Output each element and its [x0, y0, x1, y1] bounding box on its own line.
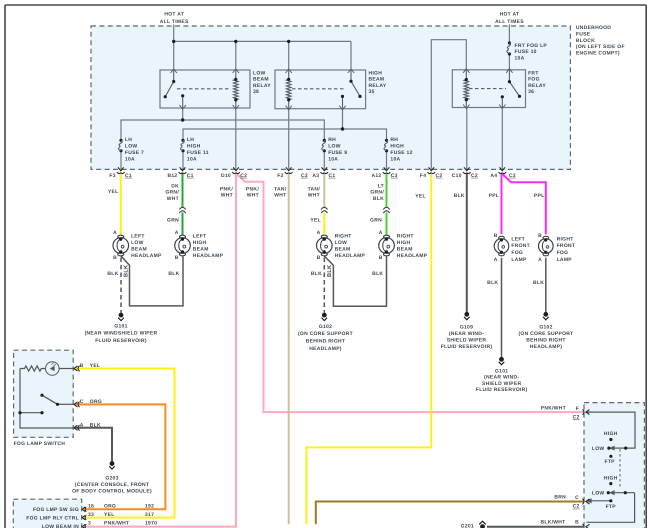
svg-text:PPL: PPL — [489, 193, 500, 199]
ground G201 — [479, 521, 486, 528]
wire DK GRN/WHT B12 — [182, 174, 184, 208]
fog switch contact link — [20, 412, 42, 414]
wire YEL to right low headlamp — [323, 213, 325, 236]
pin B dimmer switch — [583, 524, 590, 528]
svg-text:G102: G102 — [539, 324, 552, 330]
wire GRN to right high headlamp — [386, 213, 388, 236]
lamp right low beam headlamp — [317, 235, 333, 256]
svg-text:BLK: BLK — [454, 193, 465, 199]
svg-text:LEFT: LEFT — [511, 236, 525, 242]
underhood fuse block box — [91, 26, 570, 169]
svg-text:BEAM: BEAM — [397, 247, 413, 253]
svg-text:YEL: YEL — [104, 512, 115, 518]
svg-text:HIGH: HIGH — [193, 240, 207, 246]
svg-text:HEADLAMP: HEADLAMP — [131, 253, 162, 259]
svg-text:A: A — [80, 423, 84, 429]
wire PNK/WHT branch to dimmer pin F — [236, 174, 584, 412]
svg-text:HIGH: HIGH — [187, 144, 201, 150]
relay K2 coil — [288, 70, 290, 79]
svg-text:BEAM: BEAM — [253, 77, 269, 83]
fuse F12 end dots — [385, 139, 388, 142]
svg-text:G101: G101 — [495, 368, 508, 374]
wire LT GRN/BLK A12 — [386, 174, 388, 208]
svg-text:PNK/WHT: PNK/WHT — [541, 405, 566, 411]
svg-text:HIGH: HIGH — [369, 70, 383, 76]
fog switch left rail — [20, 369, 73, 429]
svg-text:ENGINE COMPT): ENGINE COMPT) — [576, 51, 620, 57]
svg-text:BLK: BLK — [487, 280, 498, 286]
wire BLK/WHT G201 to dimmer pin B — [487, 526, 583, 528]
svg-text:LOW: LOW — [253, 70, 266, 76]
relay K1 coil — [235, 70, 237, 79]
svg-text:B: B — [379, 255, 383, 261]
svg-text:B: B — [575, 519, 579, 525]
inline connector left high — [179, 207, 389, 213]
svg-text:LAMP: LAMP — [557, 257, 573, 263]
wire TAN/WHT A3 — [323, 174, 325, 208]
svg-text:WHT: WHT — [274, 193, 286, 199]
wire BLK C10 to G109 — [466, 174, 468, 313]
relay K3 switch — [508, 70, 510, 82]
svg-text:B: B — [538, 233, 542, 239]
svg-text:FOG LMP SW SIG: FOG LMP SW SIG — [33, 507, 79, 513]
fuse F7 LH LOW symbol — [118, 140, 122, 151]
inline connector right high — [383, 207, 389, 209]
svg-text:G109: G109 — [460, 324, 473, 330]
svg-text:BEAM: BEAM — [131, 247, 147, 253]
svg-text:LAMP: LAMP — [511, 257, 527, 263]
svg-text:C2: C2 — [301, 173, 308, 179]
svg-text:A: A — [379, 230, 383, 236]
svg-text:G102: G102 — [319, 324, 332, 330]
svg-text:(ON CORE SUPPORT: (ON CORE SUPPORT — [518, 331, 573, 337]
wire YEL F4 to BCM area — [306, 174, 431, 525]
lamp symbols — [113, 235, 553, 256]
lamp left low beam headlamp — [113, 235, 129, 256]
svg-text:A: A — [538, 257, 542, 263]
wire drop to low relay switch — [173, 41, 175, 70]
svg-text:B: B — [113, 255, 117, 261]
svg-text:A: A — [175, 230, 179, 236]
svg-text:GRN/: GRN/ — [165, 190, 179, 196]
svg-text:GRN: GRN — [167, 218, 179, 224]
svg-text:HEADLAMP): HEADLAMP) — [309, 346, 342, 352]
svg-text:OF BODY CONTROL MODULE): OF BODY CONTROL MODULE) — [72, 489, 152, 495]
svg-text:35: 35 — [369, 89, 375, 95]
svg-text:C1: C1 — [187, 173, 194, 179]
svg-text:10A: 10A — [125, 156, 135, 162]
svg-text:RELAY: RELAY — [369, 83, 387, 89]
fuse F9 end dots — [323, 139, 326, 142]
svg-text:WHT: WHT — [308, 193, 320, 199]
svg-text:YEL: YEL — [310, 218, 321, 224]
dimmer switch contact dots group 2 — [609, 482, 612, 485]
wire fuse11 to pin B12 — [182, 151, 184, 170]
svg-text:FOG LMP RLY CTRL: FOG LMP RLY CTRL — [26, 515, 79, 521]
svg-text:WHT: WHT — [167, 196, 179, 202]
pin D10 C2 connector — [232, 167, 240, 173]
svg-text:BEAM: BEAM — [369, 77, 385, 83]
wire top bus — [174, 40, 351, 42]
svg-text:A3: A3 — [312, 173, 319, 179]
svg-text:(NEAR WIND-: (NEAR WIND- — [449, 331, 484, 337]
svg-text:(ON CORE SUPPORT: (ON CORE SUPPORT — [298, 331, 353, 337]
fog switch pin arrows — [74, 366, 80, 431]
pin A3 C1 connector — [321, 167, 329, 173]
svg-text:C: C — [80, 399, 84, 405]
lamp right high beam headlamp — [379, 235, 395, 256]
svg-text:LH: LH — [125, 137, 132, 143]
pin F4 C2 connector — [428, 167, 436, 173]
svg-text:C2: C2 — [240, 173, 247, 179]
svg-text:BLK/WHT: BLK/WHT — [540, 519, 565, 525]
wire TAN/WHT F2 — [288, 174, 290, 525]
svg-text:YEL: YEL — [108, 189, 119, 195]
fuse F10 FRT FOG LP symbol — [507, 43, 511, 54]
svg-text:FOG: FOG — [511, 250, 523, 256]
relay K3 link dashed — [469, 88, 506, 90]
svg-text:HIGH: HIGH — [390, 144, 404, 150]
svg-text:FOG: FOG — [528, 77, 540, 83]
dimmer pin connectors — [583, 409, 590, 528]
svg-text:(ON LEFT SIDE OF: (ON LEFT SIDE OF — [576, 44, 625, 50]
LED indicator circle — [46, 362, 60, 376]
svg-text:(NEAR WINDSHIELD WIPER: (NEAR WINDSHIELD WIPER — [85, 331, 158, 337]
svg-text:LOW BEAM IN: LOW BEAM IN — [42, 524, 79, 528]
svg-text:LOW: LOW — [125, 144, 138, 150]
relay K2 coil dots — [287, 78, 290, 81]
wire fog relay coil feed from F4 — [431, 40, 466, 170]
svg-text:BLK: BLK — [373, 196, 384, 202]
pin F3 C1 connector — [117, 167, 125, 173]
ground G102 headlamps — [322, 313, 328, 320]
svg-text:HIGH: HIGH — [604, 475, 618, 481]
svg-text:TAN/: TAN/ — [308, 186, 321, 192]
relay K1 link dashed — [177, 88, 231, 90]
svg-text:10A: 10A — [390, 156, 400, 162]
junction dots top bus — [119, 40, 521, 153]
pin B fog switch — [74, 366, 80, 372]
ground symbols — [109, 312, 548, 528]
svg-text:FUSE 12: FUSE 12 — [390, 150, 412, 156]
svg-text:ORG: ORG — [104, 504, 116, 510]
svg-text:D10: D10 — [221, 173, 231, 179]
pin A4 C3 connector — [499, 167, 507, 173]
svg-text:B12: B12 — [167, 173, 177, 179]
svg-text:FRT FOG LP: FRT FOG LP — [515, 43, 548, 49]
svg-text:BLK: BLK — [107, 271, 118, 277]
svg-text:FTP: FTP — [605, 459, 616, 465]
svg-text:10A: 10A — [515, 56, 525, 62]
svg-text:FUSE: FUSE — [576, 31, 591, 37]
wire PPL A4 to left fog lamp — [501, 174, 503, 235]
svg-text:YEL: YEL — [415, 194, 426, 200]
svg-text:TAN/: TAN/ — [274, 186, 287, 192]
svg-text:BLK: BLK — [372, 271, 383, 277]
svg-text:BLK: BLK — [327, 265, 333, 277]
svg-text:FLUID RESERVOIR): FLUID RESERVOIR) — [476, 387, 528, 393]
svg-text:RELAY: RELAY — [528, 83, 546, 89]
svg-text:SHIELD WIPER: SHIELD WIPER — [447, 338, 487, 344]
svg-text:HIGH: HIGH — [604, 431, 618, 437]
svg-text:HEADLAMP): HEADLAMP) — [530, 344, 563, 350]
svg-text:(NEAR WIND-: (NEAR WIND- — [484, 375, 519, 381]
svg-text:1970: 1970 — [145, 520, 157, 526]
lamp left high beam headlamp — [175, 235, 191, 256]
dimmer switch internals — [587, 412, 636, 522]
pin A fog switch — [74, 425, 80, 431]
relay K1 switch — [173, 70, 175, 82]
relay K3 contact dots — [508, 80, 511, 83]
svg-text:HEADLAMP: HEADLAMP — [397, 253, 428, 259]
svg-text:16: 16 — [88, 504, 94, 510]
svg-text:FUSE 7: FUSE 7 — [125, 150, 144, 156]
svg-text:GRN: GRN — [370, 218, 382, 224]
svg-text:BLK: BLK — [168, 271, 179, 277]
wire YEL F3 to left low headlamp — [120, 174, 122, 236]
wire YEL fog switch B to BCM pin33 — [75, 369, 175, 518]
lamp right front fog lamp — [539, 236, 554, 256]
svg-text:LOW: LOW — [328, 144, 341, 150]
svg-text:RIGHT: RIGHT — [397, 234, 414, 240]
relay K3 coil dots — [465, 78, 468, 81]
svg-text:B: B — [494, 233, 498, 239]
relay box entry chevrons — [171, 69, 513, 110]
svg-text:PNK/WHT: PNK/WHT — [104, 520, 129, 526]
pin F2 C2 connector — [285, 167, 293, 173]
svg-text:FLUID RESERVOIR): FLUID RESERVOIR) — [441, 344, 493, 350]
wire fuse9 to pin A3 — [323, 151, 325, 170]
BCM pin connectors — [82, 507, 86, 528]
colored wires — [75, 174, 584, 527]
relay K1 low beam relay box — [160, 70, 250, 108]
wire bus B high fuses — [183, 129, 387, 140]
wire fog relay switch out to A4 — [501, 108, 503, 170]
wire high relay coil out to F2 — [288, 109, 290, 170]
svg-text:HIGH: HIGH — [397, 240, 411, 246]
svg-text:BLK: BLK — [311, 271, 322, 277]
svg-text:BEAM: BEAM — [193, 247, 209, 253]
relay K2 high beam relay box — [275, 70, 366, 109]
svg-text:C2: C2 — [471, 173, 478, 179]
svg-text:BLOCK: BLOCK — [576, 38, 595, 44]
svg-text:PNK/: PNK/ — [246, 186, 259, 192]
svg-text:FLUID RESERVOIR): FLUID RESERVOIR) — [95, 338, 147, 344]
svg-text:FUSE 11: FUSE 11 — [187, 150, 209, 156]
svg-text:DK: DK — [171, 183, 179, 189]
svg-text:BLK: BLK — [90, 423, 101, 429]
wire drop to high relay switch — [350, 41, 352, 70]
fuse F10 end dots — [508, 41, 511, 44]
wire drop to low relay coil — [235, 41, 237, 70]
svg-text:FOG LAMP SWITCH: FOG LAMP SWITCH — [14, 441, 66, 447]
svg-text:BRN: BRN — [554, 495, 566, 501]
wire BLK right pair return — [324, 256, 386, 306]
fog switch arm — [42, 395, 58, 404]
pin F dimmer switch — [583, 409, 590, 415]
svg-text:LEFT: LEFT — [193, 234, 207, 240]
ground G203 — [109, 462, 115, 469]
wire low relay switch out to fuse bus A — [182, 108, 184, 120]
fuse block pin connectors — [117, 167, 506, 173]
svg-text:C3: C3 — [391, 173, 398, 179]
relay K2 switch — [350, 70, 352, 81]
wire BLK left dashed to G101 — [120, 258, 122, 313]
svg-text:B: B — [80, 363, 84, 369]
wire BLK right dashed to G102 — [323, 258, 325, 313]
svg-text:HOT AT: HOT AT — [164, 11, 184, 17]
svg-text:F4: F4 — [420, 173, 426, 179]
resistor fog switch — [20, 366, 45, 371]
headlamp ground return wires — [121, 256, 546, 357]
relay K2 contact dots — [349, 80, 352, 83]
svg-text:RH: RH — [390, 137, 398, 143]
svg-text:GRN/: GRN/ — [370, 190, 384, 196]
TEXTS — [125, 11, 625, 156]
svg-text:BEHIND RIGHT: BEHIND RIGHT — [526, 338, 565, 344]
svg-text:F: F — [576, 406, 579, 412]
svg-text:YEL: YEL — [90, 363, 101, 369]
wire hot feed right — [508, 25, 510, 44]
fuse F11 LH HIGH symbol — [180, 140, 184, 151]
wire BRN dimmer pin C — [316, 502, 584, 525]
svg-text:10A: 10A — [187, 156, 197, 162]
node bus A junction — [181, 118, 184, 121]
svg-text:HEADLAMP: HEADLAMP — [193, 253, 224, 259]
wire PNK/WHT D10 to BCM pin3 — [85, 174, 236, 527]
pin C dimmer switch — [583, 499, 590, 505]
ground G109 — [464, 312, 470, 319]
svg-text:192: 192 — [145, 504, 154, 510]
svg-text:LOW: LOW — [592, 490, 605, 496]
svg-text:BLK: BLK — [124, 265, 130, 277]
svg-text:LT: LT — [378, 183, 384, 189]
svg-text:FRONT: FRONT — [511, 243, 530, 249]
pin A12 C3 connector — [383, 167, 391, 173]
wire fuse7 to pin F3 — [120, 151, 122, 170]
svg-text:ALL TIMES: ALL TIMES — [160, 19, 189, 25]
svg-text:F2: F2 — [277, 173, 283, 179]
ground G101 headlamps — [118, 313, 124, 320]
svg-text:B: B — [317, 255, 321, 261]
fog switch contact dots — [40, 394, 43, 397]
pin C10 C2 connector — [463, 167, 471, 173]
svg-text:HEADLAMP: HEADLAMP — [335, 253, 366, 259]
svg-text:A: A — [317, 230, 321, 236]
svg-text:B: B — [175, 255, 179, 261]
fuse F7 end dots — [119, 139, 122, 142]
svg-text:C2: C2 — [573, 414, 580, 420]
svg-text:G101: G101 — [114, 323, 127, 329]
svg-text:317: 317 — [145, 512, 154, 518]
svg-text:SHIELD WIPER: SHIELD WIPER — [482, 381, 522, 387]
wire PPL branch to right fog lamp — [503, 174, 546, 234]
relay K1 coil dots — [234, 78, 237, 81]
wire BLK left pair return — [121, 256, 183, 306]
wire drop to high relay coil — [288, 41, 290, 70]
fog lamp switch box — [14, 350, 74, 437]
inline connector right low — [321, 207, 327, 209]
pin 16 BCM — [82, 507, 86, 512]
svg-text:C: C — [575, 495, 579, 501]
wire BLK right fog to G102 — [545, 258, 547, 313]
ground G102 fog — [543, 312, 549, 319]
svg-text:LOW: LOW — [335, 240, 348, 246]
svg-text:LOW: LOW — [131, 240, 144, 246]
svg-text:LOW: LOW — [592, 446, 605, 452]
fuse F9 RH LOW symbol — [322, 140, 326, 151]
relay K3 coil — [465, 70, 467, 80]
svg-text:C3: C3 — [509, 173, 516, 179]
wire BLK fog switch A to G203 — [75, 428, 112, 462]
node bus B junction — [341, 127, 344, 130]
pin 3 BCM — [82, 524, 86, 528]
relay K3 front fog relay box — [452, 70, 525, 108]
svg-text:RELAY: RELAY — [253, 83, 271, 89]
svg-text:PNK/: PNK/ — [220, 186, 233, 192]
svg-text:ORG: ORG — [90, 399, 102, 405]
svg-text:RIGHT: RIGHT — [557, 236, 574, 242]
svg-text:WHT: WHT — [247, 193, 259, 199]
svg-text:A: A — [113, 230, 117, 236]
svg-text:C2: C2 — [573, 504, 580, 510]
wire low relay coil out to D10 — [235, 108, 237, 169]
relay K1 contact dots — [172, 80, 175, 83]
wire GRN to left high headlamp — [182, 213, 184, 236]
wire fuse10 to fog relay — [508, 54, 510, 70]
svg-text:A4: A4 — [490, 173, 497, 179]
svg-text:A12: A12 — [371, 173, 381, 179]
svg-text:36: 36 — [528, 89, 534, 95]
svg-text:BEHIND RIGHT: BEHIND RIGHT — [306, 339, 345, 345]
svg-text:PPL: PPL — [534, 193, 545, 199]
wire hot feed left — [173, 25, 175, 42]
pin 33 BCM — [82, 515, 86, 520]
svg-text:RH: RH — [328, 137, 336, 143]
svg-text:FOG: FOG — [557, 250, 569, 256]
svg-text:FUSE 10: FUSE 10 — [515, 49, 537, 55]
wire ORG fog switch C to BCM pin16 — [75, 404, 165, 509]
svg-text:FRONT: FRONT — [557, 243, 576, 249]
relay K2 link dashed — [292, 88, 346, 90]
svg-text:BEAM: BEAM — [335, 247, 351, 253]
ground G101 fog — [499, 357, 505, 364]
body control module box (bottom left) — [13, 499, 81, 528]
svg-text:38: 38 — [253, 89, 259, 95]
svg-text:FUSE 9: FUSE 9 — [328, 150, 347, 156]
svg-text:C1: C1 — [329, 173, 336, 179]
fuse F12 RH HIGH symbol — [384, 140, 388, 151]
wire bus A low fuses — [121, 120, 324, 140]
lamp left front fog lamp — [494, 236, 509, 256]
svg-text:LH: LH — [187, 137, 194, 143]
fuse F11 end dots — [181, 139, 184, 142]
wire fuse12 to pin A12 — [386, 151, 388, 170]
svg-text:10A: 10A — [328, 156, 338, 162]
wire BLK left fog to G101 — [501, 258, 503, 358]
wire high relay switch out to fuse bus B — [342, 109, 344, 129]
svg-text:C1: C1 — [125, 173, 132, 179]
pin C fog switch — [74, 402, 80, 408]
svg-text:WHT: WHT — [221, 193, 233, 199]
svg-text:G203: G203 — [105, 475, 118, 481]
svg-text:BLK: BLK — [533, 280, 544, 286]
svg-text:C2: C2 — [436, 173, 443, 179]
svg-text:HOT AT: HOT AT — [500, 11, 520, 17]
dimmer switch contact dots group 1 — [609, 438, 612, 441]
svg-text:FTP: FTP — [606, 504, 617, 510]
svg-text:FRT: FRT — [528, 70, 539, 76]
